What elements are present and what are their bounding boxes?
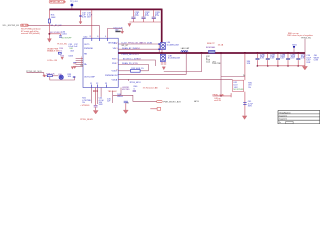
svg-text:stuff 2B: stuff 2B [214,99,221,102]
svg-text:32K: 32K [247,63,251,65]
capacitor C283 [152,10,161,22]
svg-text:0.01U: 0.01U [62,33,68,35]
svg-text:+1/TBD09: +1/TBD09 [80,105,90,107]
svg-text:0: 0 [134,88,136,90]
junction bus-U2 [244,52,246,54]
svg-text:TP_LDO: TP_LDO [70,1,78,3]
label red PLGG [57,43,68,45]
svg-text:AP B: AP B [194,100,199,103]
input arrow left [43,75,45,77]
svg-text:10K: 10K [68,76,72,78]
junction C289 top [287,52,289,54]
svg-text:1uF: 1uF [107,100,111,102]
svg-text:5%: 5% [248,87,251,89]
off-page connector bottom [157,100,163,102]
svg-text:X5R: X5R [306,62,310,64]
svg-text:R38 2.2K: R38 2.2K [46,73,55,75]
label red line wide [143,86,159,89]
junction C287 bottom [267,65,268,66]
wire bus branch x221 [221,53,245,96]
svg-text:NO STUFF: NO STUFF [234,89,245,91]
svg-text:MX/TBD: MX/TBD [122,89,130,91]
svg-text:1%: 1% [166,88,169,90]
svg-text:OUT5: OUT5 [84,44,90,46]
svg-text:1% Resistors AB: 1% Resistors AB [143,86,159,89]
junction C288 bottom [277,65,278,66]
svg-text:1K 2A: 1K 2A [218,43,224,46]
svg-text:WL_EN: WL_EN [21,25,29,27]
svg-text:RST: RST [137,59,142,61]
svg-text:6.3V: 6.3V [260,57,265,59]
ground arrow mini stack [73,66,76,68]
svg-text:6.3V: 6.3V [291,57,296,59]
wire U1 out A [116,43,159,47]
label right small [107,98,112,102]
capacitor mini stack left [73,63,76,65]
svg-text:FB30 TP: FB30 TP [207,43,216,45]
svg-text:TBD 0402: TBD 0402 [108,91,118,93]
svg-text:LAB CAP: LAB CAP [181,47,190,50]
svg-text:PP3V3_WL_LDO: PP3V3_WL_LDO [50,2,66,4]
junction C286 bottom [257,65,258,66]
component box dark [115,31,120,33]
power bus PP3V3 top rail [49,8,161,10]
wire U1 out E with series resistor [116,69,148,71]
label blue pair [68,44,78,48]
capacitor C2 [59,31,72,39]
wire R1 to node [48,23,50,39]
capacitor C286 [256,54,266,66]
svg-text:6: 6 [97,36,99,38]
wire PP1V8 [27,73,44,76]
wire TP to bus end [304,39,306,53]
svg-text:WL_BT: WL_BT [122,45,129,47]
junction PWRGND-bus [185,52,187,54]
wire vertical join A-B to bus [158,43,160,53]
svg-text:DCIN: DCIN [147,43,152,45]
junction C288 top [277,52,279,54]
svg-text:PPWL_BDMX: PPWL_BDMX [80,119,93,121]
wire red right cluster [213,93,232,97]
capacitor C40 [243,101,253,107]
wire cap rail top [130,21,162,23]
svg-text:RED close to pin of regulator: RED close to pin of regulator [287,34,313,37]
resistor R3 [46,73,55,76]
IC U1 [83,37,118,88]
label left of pin1 [82,98,91,104]
wire node to C2 [49,33,60,35]
U1 pin names inside [84,38,119,87]
wire pin 3 with PP3V3 arrow [105,29,122,39]
wire arrow to R3 [45,75,47,77]
junction C289 bottom [287,65,288,66]
svg-text:100K: 100K [51,17,56,19]
svg-text:4: 4 [105,36,107,38]
svg-text:HB: HB [84,53,87,55]
power flag down arrow [47,39,51,43]
node junction A [49,33,51,35]
net label red right cluster [213,93,226,96]
svg-text:6.3V: 6.3V [270,57,275,59]
svg-text:LOW = ON: LOW = ON [47,60,57,62]
inductor coil symbol [181,51,188,52]
label purple-green rows [59,48,74,57]
wire WLL_BDPWR_EN net [28,26,99,39]
wire red with connector [150,108,160,111]
svg-text:1%: 1% [59,50,62,52]
capacitor C282 [142,10,151,22]
label PA [126,102,129,105]
label right edge [306,55,320,64]
svg-text:16V: 16V [87,17,91,19]
capacitor C288 [276,54,286,66]
svg-text:BLM18AG: BLM18AG [206,46,216,49]
svg-text:6.3V: 6.3V [280,57,285,59]
svg-text:©DigiNamei: ©DigiNamei [279,111,291,114]
svg-text:OUT/COMP: OUT/COMP [84,76,95,78]
junction x221 bottom [220,95,221,96]
capacitor pair under L2 [161,63,166,65]
wire U2 to C cap [244,92,246,116]
svg-text:5%: 5% [82,102,85,104]
wire feedback loop [50,77,75,80]
capacitor C290 [296,54,306,66]
resistor R1 pull-up [48,15,62,34]
label red bottom left [80,119,93,121]
svg-text:PGB TBD: PGB TBD [212,63,221,65]
power bus VOUT rail [118,52,305,54]
wire bottom jog [113,95,157,101]
wire U1 out C [116,59,155,66]
label red under [80,105,90,107]
capacitor under pin2 [94,105,98,110]
svg-text:100K: 100K [68,55,73,57]
wire U1 bottom pin 2 [95,88,97,106]
ground arrow mid [123,110,128,114]
label part number [122,87,130,91]
label tiny red [166,88,169,90]
label red note2 [47,60,57,62]
power arrow PP3V3 [121,31,124,33]
note text red [21,29,41,35]
net label bottom [163,102,181,104]
ground arrow pin2 [93,111,98,115]
note text block [206,56,222,65]
wire U1 out D [116,62,148,71]
wire U1 bottom pin 1 [91,88,93,104]
label TP net [301,38,312,40]
svg-text:1uF: 1uF [74,46,78,48]
wire pin VIN from bus [90,10,92,38]
test point TP1 [70,1,78,9]
svg-text:PA: PA [84,63,87,66]
red marks top [93,90,97,91]
svg-text:X5R: X5R [248,106,252,108]
ground arrow under C1 [79,22,82,24]
svg-text:VDDA: VDDA [112,78,118,81]
capacitor C281 [131,10,140,22]
wire VDDA long [118,78,232,80]
test point TP2 [292,44,298,52]
svg-text:WLAN_BT_3V3: WLAN_BT_3V3 [122,47,137,50]
wire cap ground rail [258,65,305,67]
svg-text:ILC6383-LBX: ILC6383-LBX [168,58,181,60]
label LAB CAP [181,47,190,50]
wire U1 bottom pin 3 [97,88,99,105]
resistor R2 series [131,68,144,72]
capacitor C287 [266,54,276,66]
junction C286 top [257,52,259,54]
svg-text:external SW (default): external SW (default) [21,32,40,35]
ground arrow cap rail [302,66,307,70]
junction return-bus [201,52,203,54]
svg-text:PDN: PDN [134,63,139,65]
junction C287 top [267,52,269,54]
svg-text:PA: PA [126,102,129,105]
wire bus vertical drop [161,9,163,43]
wire R3 to Q1 [52,75,58,77]
label red 2 lines [214,98,221,102]
label R WE [117,94,123,98]
capacitor C289 [286,54,296,66]
wire L1 to bus [161,50,163,53]
junction bus main [161,52,163,54]
wire bus to pull-up column [48,10,50,19]
svg-text:TP3V3_WL: TP3V3_WL [301,38,312,40]
off-page connector [20,24,28,27]
svg-text:BT3V3: BT3V3 [133,54,140,56]
svg-text:PWR_MICRO_BLR: PWR_MICRO_BLR [163,102,181,104]
svg-text:magesim: magesim [279,119,287,121]
ground arrow bundle [71,67,74,70]
IC U2 [233,80,245,91]
wire U1 bottom pin 5 [120,88,122,96]
net label PP1V8 mid left [26,71,43,73]
capacitor mid [124,101,128,110]
wire ground return to bus [164,53,202,72]
label red left cluster [47,47,59,52]
label right of U2 [248,82,253,88]
svg-text:magesim: magesim [279,116,287,118]
ground arrow under L2 [162,67,165,70]
wire bundle to U1 left pins [76,57,83,66]
power arrow small left [61,57,64,60]
label center block [99,98,105,106]
transistor Q1 [58,74,63,79]
note red top right [287,33,313,37]
junction C290 top [297,52,299,54]
svg-text:PP3V3_WL: PP3V3_WL [122,54,133,56]
inductor L2 [160,54,180,61]
wire U1 bottom pin 4 [100,88,102,97]
wire cap column [112,91,114,104]
junction bus x221 [220,52,222,54]
wire PWRGND return [118,53,186,74]
svg-text:WE04: WE04 [117,96,123,98]
svg-text:063: 063 [70,50,74,52]
decoupling capacitor C1 at bus [79,10,93,22]
svg-text:NO STUFF: NO STUFF [62,38,73,40]
svg-text:EN1: EN1 [136,48,141,50]
label red under IC [108,91,118,93]
svg-text:R33 100K 1%: R33 100K 1% [131,68,144,70]
ferrite bead FB1 [206,43,224,53]
wire bus to U2 [243,53,246,80]
net label PP3V3_WLAN_BT_LDO [49,0,66,3]
svg-text:X5R: X5R [99,104,103,106]
label AP B [194,100,199,103]
label blue small [133,86,139,92]
svg-text:PLGG_WL: PLGG_WL [57,43,68,45]
net label under VOUT bus [122,54,140,56]
svg-text:24: 24 [243,75,246,77]
junction C290 bottom [298,65,299,66]
ground arrow bottom right [242,116,247,120]
small bits right of loop [73,76,76,78]
svg-text:PWRGNDOUT: PWRGNDOUT [105,75,119,77]
svg-text:PWRGND: PWRGND [84,48,94,50]
svg-text:mod: mod [206,61,210,63]
label right of Q1 [68,74,73,78]
svg-text:WL5V: WL5V [141,43,147,45]
svg-text:8: 8 [90,36,92,38]
title block [278,110,320,124]
svg-text:ILC6383-LBX: ILC6383-LBX [167,44,180,46]
ground arrow cap rail top [128,24,131,27]
inductor L1 [160,42,179,49]
label near arrow [113,28,123,32]
svg-text:ENABLE SW: ENABLE SW [47,49,59,52]
wire pin EN [97,36,99,38]
resistor R small left [58,52,61,54]
wire U1 out B [116,47,159,50]
wire bus end drop [304,54,306,67]
svg-text:RTLB_MCU: RTLB_MCU [130,82,141,84]
svg-text:CON: CON [314,60,319,62]
net label RTLB_MCU [129,79,141,84]
svg-text:WLL_BDPWR_EN: WLL_BDPWR_EN [3,25,20,27]
net label WLL_BDPWR_EN [3,25,20,27]
pin name PA [80,64,83,67]
label above U2 [247,61,251,65]
